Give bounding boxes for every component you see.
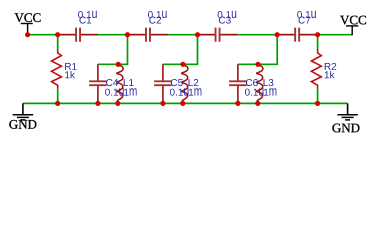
junction node R2 top xyxy=(315,32,320,37)
junction node R2 bottom xyxy=(315,101,320,106)
junction node C5 bottom xyxy=(160,101,165,106)
wire R2 top stub xyxy=(317,35,319,49)
capacitor C2 xyxy=(128,28,168,42)
label R2 ref xyxy=(325,63,337,70)
junction node L1 top xyxy=(116,62,121,67)
label R1 value xyxy=(65,71,75,78)
resistor R2 xyxy=(311,49,321,89)
label L2 value xyxy=(189,88,201,95)
junction node tank3 top rail xyxy=(275,32,280,37)
label C3 ref xyxy=(219,17,231,24)
label C4 ref xyxy=(106,79,118,86)
wire R1 top stub xyxy=(57,35,59,49)
wire top rail VCC bus xyxy=(28,34,353,36)
capacitor C6 xyxy=(229,64,247,103)
capacitor C1 xyxy=(58,28,98,42)
label C6 ref xyxy=(246,79,258,86)
label C3 value xyxy=(218,11,237,18)
junction node R1 top xyxy=(55,32,60,37)
resistor R1 xyxy=(52,49,62,89)
power symbol VCC left xyxy=(21,24,33,35)
label R1 ref xyxy=(65,63,77,70)
power symbol VCC right xyxy=(346,26,358,35)
label C1 value xyxy=(78,11,97,18)
label C7 value xyxy=(297,11,316,18)
capacitor C7 xyxy=(277,28,317,42)
wire tank1 drop and node xyxy=(98,35,128,65)
label C5 value xyxy=(170,88,189,95)
capacitor C3 xyxy=(198,28,238,42)
wire tank3 drop and node xyxy=(238,35,277,65)
label C2 ref xyxy=(149,17,161,24)
capacitor C5 xyxy=(154,64,172,103)
label C1 ref xyxy=(79,17,91,24)
label VCC left xyxy=(15,13,41,22)
label C5 ref xyxy=(171,79,183,86)
wire R2 bottom stub xyxy=(317,88,319,103)
ground symbol right xyxy=(337,103,357,120)
inductor L3 xyxy=(257,65,263,101)
capacitor C4 xyxy=(89,64,107,103)
label C6 value xyxy=(245,88,264,95)
label L3 ref xyxy=(264,79,274,86)
junction node L3 bottom xyxy=(255,101,260,106)
junction node L2 top xyxy=(180,62,185,67)
junction node L2 bottom xyxy=(180,101,185,106)
label GND left xyxy=(9,120,36,129)
junction node tank2 top rail xyxy=(195,32,200,37)
wire bottom ground rail xyxy=(23,102,348,104)
label C4 value xyxy=(105,88,124,95)
junction node L3 top xyxy=(255,62,260,67)
label L2 ref xyxy=(189,79,199,86)
junction node L1 bottom xyxy=(115,101,120,106)
junction node C4 bottom xyxy=(95,101,100,106)
junction node C6 bottom xyxy=(235,101,240,106)
label C2 value xyxy=(148,11,167,18)
label C7 ref xyxy=(299,17,311,24)
inductor L2 xyxy=(182,65,188,101)
inductor L1 xyxy=(117,65,123,101)
junction node tank1 top rail xyxy=(125,32,130,37)
label L1 value xyxy=(124,88,136,95)
junction node VCC left on top rail xyxy=(25,32,30,37)
label VCC right xyxy=(340,16,366,25)
label GND right xyxy=(332,124,359,133)
junction node R1 bottom xyxy=(55,101,60,106)
wire tank2 drop and node xyxy=(163,35,198,65)
label R2 value xyxy=(325,71,335,78)
label L3 value xyxy=(264,88,276,95)
wire R1 bottom stub xyxy=(57,88,59,103)
ground symbol left xyxy=(13,103,33,120)
label L1 ref xyxy=(124,79,134,86)
